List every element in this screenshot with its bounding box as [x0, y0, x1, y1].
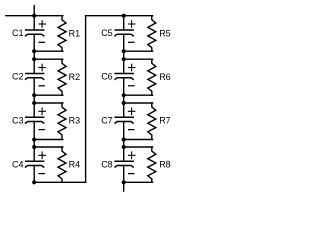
- wire: C8 bottom lead: [123, 166, 125, 192]
- wire: bottom rail of C3/R3 cell: [34, 139, 63, 141]
- polarity mark + of C1: [39, 21, 46, 28]
- wire: node between C6 and C7 top rail: [124, 102, 153, 104]
- node: junction dot at C6 bottom: [122, 93, 126, 97]
- capacitor C2: [26, 74, 44, 80]
- wire: top feed of right string: [86, 15, 153, 17]
- svg-text:C2: C2: [12, 72, 24, 82]
- svg-text:R7: R7: [159, 116, 171, 126]
- capacitor C1: [26, 30, 44, 36]
- polarity mark - of C2: [39, 85, 44, 87]
- svg-text:R5: R5: [159, 28, 171, 38]
- wire: top input lead, left: [6, 15, 63, 17]
- wire: bottom rail of C6/R6 cell: [124, 94, 153, 96]
- wire: C7 bottom lead: [123, 122, 125, 148]
- node: junction dot at C2 bottom: [32, 93, 36, 97]
- wire: C5 bottom lead: [123, 34, 125, 59]
- svg-text:C6: C6: [101, 72, 113, 82]
- wire: C1 top lead: [33, 16, 35, 30]
- polarity mark - of C8: [129, 173, 134, 175]
- resistor R2: [58, 59, 66, 95]
- polarity mark - of C5: [129, 41, 134, 43]
- polarity mark + of C8: [128, 152, 135, 159]
- wire: C2 bottom lead: [33, 78, 35, 103]
- node: junction dot at C7 top: [122, 101, 126, 105]
- wire: C7 top lead: [123, 103, 125, 117]
- wire: link riser from bottom of left string up to top of right string: [85, 16, 87, 183]
- wire: C4 top lead: [33, 147, 35, 161]
- node: junction dot at C1 top: [32, 14, 36, 18]
- polarity mark + of C5: [128, 21, 135, 28]
- wire: node between C2 and C3 top rail: [34, 102, 63, 104]
- node: junction dot at C5 bottom: [122, 49, 126, 53]
- polarity mark - of C1: [39, 41, 44, 43]
- wire: C3 top lead: [33, 103, 35, 117]
- node: junction dot at C2 top: [32, 57, 36, 61]
- node: junction dot at C4 bottom: [32, 180, 36, 184]
- resistor R8: [148, 147, 156, 182]
- wire: node between C5 and C6 top rail: [124, 58, 153, 60]
- svg-text:R1: R1: [69, 28, 81, 38]
- capacitor C6: [115, 74, 133, 80]
- polarity mark - of C3: [39, 129, 44, 131]
- wire: top input stub up at node A: [33, 6, 35, 16]
- svg-text:C3: C3: [12, 115, 24, 125]
- capacitor C4: [26, 161, 44, 167]
- wire: bottom rail of C2/R2 cell: [34, 94, 63, 96]
- node: junction dot at C4 top: [32, 145, 36, 149]
- node: junction dot at C6 top: [122, 57, 126, 61]
- resistor R5: [148, 16, 156, 52]
- polarity mark - of C7: [129, 129, 134, 131]
- wire: bottom rail of C5/R5 cell: [124, 50, 153, 52]
- wire: C1 bottom lead: [33, 34, 35, 59]
- wire: node between C3 and C4 top rail: [34, 146, 63, 148]
- wire: C3 bottom lead: [33, 122, 35, 148]
- wire: C6 bottom lead: [123, 78, 125, 103]
- resistor R1: [58, 16, 66, 52]
- node: junction dot at C8 bottom: [122, 180, 126, 184]
- wire: bottom rail of C4/R4 extending to link riser: [34, 181, 85, 183]
- svg-text:C4: C4: [12, 159, 24, 169]
- svg-text:R6: R6: [159, 72, 171, 82]
- wire: bottom rail of C8/R8 cell: [124, 181, 153, 183]
- polarity mark + of C4: [39, 152, 46, 159]
- polarity mark + of C2: [39, 64, 46, 71]
- svg-text:R3: R3: [69, 116, 81, 126]
- polarity mark + of C6: [128, 64, 135, 71]
- wire: C6 top lead: [123, 59, 125, 73]
- polarity mark - of C4: [39, 173, 44, 175]
- capacitor C5: [115, 30, 133, 36]
- svg-text:R2: R2: [69, 72, 81, 82]
- wire: C5 top lead: [123, 16, 125, 30]
- wire: C8 top lead: [123, 147, 125, 161]
- capacitor C8: [115, 161, 133, 167]
- wire: C4 bottom lead: [33, 166, 35, 183]
- node: junction dot at C3 bottom: [32, 137, 36, 141]
- wire: bottom rail of C1/R1 cell: [34, 50, 63, 52]
- resistor R7: [148, 103, 156, 140]
- svg-text:R8: R8: [159, 160, 171, 170]
- node: junction dot at C5 top: [122, 14, 126, 18]
- wire: bottom rail of C7/R7 cell: [124, 139, 153, 141]
- svg-text:C8: C8: [101, 159, 113, 169]
- node: junction dot at C3 top: [32, 101, 36, 105]
- wire: node between C1 and C2 top rail: [34, 58, 63, 60]
- svg-text:C1: C1: [12, 28, 24, 38]
- capacitor C7: [115, 117, 133, 123]
- wire: C2 top lead: [33, 59, 35, 73]
- resistor R4: [58, 147, 66, 182]
- wire: node between C7 and C8 top rail: [124, 146, 153, 148]
- node: junction dot at C1 bottom: [32, 49, 36, 53]
- svg-text:R4: R4: [69, 160, 81, 170]
- node: junction dot at C7 bottom: [122, 137, 126, 141]
- capacitor C3: [26, 117, 44, 123]
- svg-text:C5: C5: [101, 28, 113, 38]
- svg-text:C7: C7: [101, 115, 113, 125]
- polarity mark - of C6: [129, 85, 134, 87]
- node: junction dot at C8 top: [122, 145, 126, 149]
- resistor R3: [58, 103, 66, 140]
- polarity mark + of C3: [39, 108, 46, 115]
- polarity mark + of C7: [128, 108, 135, 115]
- resistor R6: [148, 59, 156, 95]
